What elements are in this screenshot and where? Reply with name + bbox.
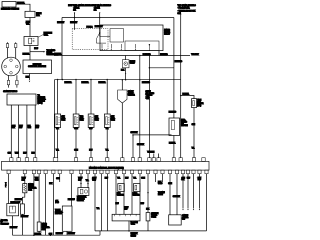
svg-text:BLK: BLK (12, 127, 15, 129)
svg-text:BLU/GRN: BLU/GRN (15, 199, 23, 201)
svg-text:CON-: CON- (197, 101, 201, 103)
svg-text:BLK/YEL: BLK/YEL (99, 82, 106, 84)
svg-text:SERVICE: SERVICE (151, 213, 158, 215)
svg-text:SENSOR: SENSOR (128, 95, 136, 97)
svg-text:WHT/: WHT/ (78, 178, 83, 180)
svg-text:NOT ON ALL MODELS: NOT ON ALL MODELS (92, 4, 111, 7)
svg-text:GRN: GRN (192, 124, 195, 126)
svg-text:CYL: CYL (55, 200, 58, 202)
svg-text:WHT/: WHT/ (22, 178, 27, 180)
svg-text:TDC/CRANK: TDC/CRANK (77, 196, 87, 199)
svg-text:(DIST): (DIST) (38, 103, 43, 105)
svg-text:RELAY: RELAY (164, 32, 171, 35)
svg-text:COND: COND (130, 63, 136, 65)
svg-text:IGNITION SWITCH: IGNITION SWITCH (1, 8, 20, 10)
svg-text:GRN: GRN (74, 150, 78, 152)
svg-text:YEL: YEL (86, 180, 89, 182)
svg-text:WHT: WHT (15, 153, 19, 155)
svg-text:NOT USED ON ALL MODELS: NOT USED ON ALL MODELS (68, 4, 93, 7)
svg-text:CHECK: CHECK (151, 215, 158, 217)
svg-text:GRN: GRN (35, 179, 39, 181)
svg-text:SOR: SOR (80, 120, 84, 122)
svg-text:L: L (5, 186, 6, 188)
svg-text:IGN: IGN (181, 123, 185, 125)
svg-text:BLK/YEL: BLK/YEL (183, 94, 190, 96)
svg-text:YEL: YEL (117, 178, 120, 180)
svg-text:• FUSE 15 15A: • FUSE 15 15A (178, 7, 191, 10)
svg-text:SUPPRES-: SUPPRES- (28, 188, 37, 190)
svg-text:GRN: GRN (141, 178, 145, 180)
svg-text:NOISE: NOISE (28, 186, 33, 188)
svg-text:BLK/YEL: BLK/YEL (169, 142, 176, 144)
svg-text:BLK: BLK (182, 179, 185, 181)
svg-text:YEL: YEL (133, 178, 136, 180)
svg-text:RADIO: RADIO (28, 183, 34, 186)
svg-text:YEL/GRN: YEL/GRN (147, 152, 155, 154)
svg-text:BLK/YEL: BLK/YEL (54, 54, 61, 56)
svg-text:BLK/YEL: BLK/YEL (65, 82, 72, 84)
svg-text:BLK/: BLK/ (198, 177, 202, 179)
svg-text:BLU: BLU (89, 128, 93, 130)
svg-text:RADIO: RADIO (42, 223, 48, 226)
svg-text:TO SCAN: TO SCAN (131, 221, 139, 224)
svg-text:YEL: YEL (106, 150, 109, 152)
svg-text:POS: POS (55, 202, 58, 204)
svg-text:GAUGE: GAUGE (182, 214, 188, 217)
svg-text:SOR: SOR (111, 120, 115, 122)
svg-text:ORN: ORN (12, 125, 15, 127)
svg-text:BLU: BLU (36, 127, 39, 129)
svg-text:BLU: BLU (105, 178, 109, 180)
svg-text:BLU: BLU (116, 203, 120, 205)
svg-text:SENSOR: SENSOR (133, 195, 141, 197)
svg-text:GRN/BLK: GRN/BLK (131, 132, 139, 134)
svg-text:TO MAIN: TO MAIN (158, 191, 165, 194)
svg-text:SOR: SOR (28, 189, 32, 191)
svg-text:TOP OF ALL MODELS: TOP OF ALL MODELS (178, 4, 197, 7)
svg-text:TO IGN: TO IGN (55, 210, 61, 212)
svg-text:BLU: BLU (141, 203, 145, 205)
svg-text:RED: RED (198, 179, 202, 181)
svg-text:GRN/BLK: GRN/BLK (137, 144, 145, 146)
svg-text:SUPPRES-: SUPPRES- (42, 227, 51, 229)
svg-text:COIL: COIL (44, 35, 48, 37)
svg-text:TRONIC: TRONIC (181, 121, 188, 123)
svg-text:• FUSE 1: • FUSE 1 (94, 7, 100, 9)
svg-text:BLU: BLU (19, 127, 22, 129)
svg-text:ELEC-: ELEC- (181, 120, 186, 122)
svg-text:BARO: BARO (133, 192, 138, 195)
svg-text:WHT: WHT (92, 179, 96, 181)
svg-text:BLU: BLU (78, 179, 82, 181)
svg-text:E: E (5, 185, 6, 187)
svg-text:SHIELD: SHIELD (131, 235, 137, 237)
svg-text:BLU: BLU (187, 177, 190, 179)
svg-text:RED: RED (36, 125, 40, 127)
svg-text:GRN: GRN (74, 128, 78, 130)
svg-text:GRN/BLK: GRN/BLK (173, 196, 181, 198)
svg-text:ENGINE CONTROL MODULE (ECM): ENGINE CONTROL MODULE (ECM) (89, 168, 124, 170)
svg-text:USED: USED (158, 183, 163, 185)
svg-text:WHT/: WHT/ (124, 207, 129, 209)
svg-text:BLU: BLU (34, 48, 38, 50)
svg-text:BLU: BLU (125, 178, 129, 180)
svg-text:BLK/WHT: BLK/WHT (10, 227, 18, 229)
svg-text:SOLENOID: SOLENOID (1, 223, 10, 225)
svg-text:SENSOR: SENSOR (77, 200, 85, 202)
svg-text:IDLE BOOST: IDLE BOOST (11, 202, 21, 204)
svg-text:GRN: GRN (28, 127, 31, 129)
svg-text:YEL/BLK: YEL/BLK (191, 54, 199, 56)
svg-text:NECTOR: NECTOR (197, 103, 204, 105)
svg-text:YEL/: YEL/ (35, 178, 39, 180)
svg-text:CONTROL: CONTROL (55, 211, 63, 213)
svg-text:TOOL: TOOL (131, 224, 135, 226)
svg-text:• FUSE 1: • FUSE 1 (73, 7, 79, 9)
svg-text:BLK/YEL: BLK/YEL (17, 3, 25, 5)
svg-text:A/C IDLE-: A/C IDLE- (1, 219, 9, 222)
svg-text:SEE IF: SEE IF (146, 91, 151, 93)
svg-text:SOR: SOR (61, 120, 65, 122)
svg-text:YEL: YEL (56, 150, 59, 152)
svg-text:(BLU): (BLU) (197, 105, 201, 107)
svg-text:BLK/WHT: BLK/WHT (68, 233, 75, 235)
svg-text:BLK/WHT: BLK/WHT (70, 22, 77, 24)
svg-text:YEL: YEL (97, 208, 100, 210)
svg-text:BLK: BLK (121, 70, 125, 72)
svg-text:MAP: MAP (117, 192, 120, 195)
svg-text:BLK/YEL: BLK/YEL (82, 82, 89, 84)
svg-text:YEL: YEL (106, 128, 109, 130)
svg-text:BLU/RED: BLU/RED (169, 112, 177, 114)
svg-text:WHT: WHT (19, 125, 22, 127)
svg-text:• UNDER-HOOD BOX: • UNDER-HOOD BOX (178, 10, 197, 12)
svg-text:CRANK: CRANK (128, 90, 135, 93)
svg-text:FUSE 2: FUSE 2 (87, 26, 93, 28)
svg-text:SENSOR: SENSOR (117, 195, 125, 197)
svg-text:NOT: NOT (158, 181, 161, 183)
svg-text:BLK/WHT: BLK/WHT (21, 216, 29, 218)
svg-text:BLU: BLU (124, 209, 128, 211)
svg-text:BLK/WHT: BLK/WHT (57, 22, 64, 24)
svg-text:BLK/WHT: BLK/WHT (56, 233, 63, 235)
svg-text:BLU: BLU (89, 150, 93, 152)
svg-text:BLK/WHT: BLK/WHT (95, 26, 104, 28)
svg-text:BLK: BLK (49, 183, 53, 185)
svg-text:POSITION: POSITION (77, 198, 85, 200)
svg-text:• FUSE 2: • FUSE 2 (146, 95, 153, 97)
svg-text:Y: Y (5, 183, 7, 185)
svg-text:MODULE: MODULE (55, 213, 62, 215)
svg-text:YEL: YEL (192, 148, 195, 150)
svg-text:CONTROL MODULE: CONTROL MODULE (28, 66, 47, 68)
svg-text:TACH: TACH (197, 99, 201, 102)
svg-text:UP: UP (1, 222, 3, 224)
svg-text:CONN: CONN (151, 216, 157, 218)
svg-text:YEL: YEL (56, 128, 59, 130)
svg-text:YEL: YEL (26, 24, 30, 26)
svg-text:ORN: ORN (56, 178, 59, 180)
svg-text:BLU: BLU (28, 125, 31, 127)
svg-text:ORN: ORN (182, 177, 185, 179)
svg-text:GRN/: GRN/ (92, 178, 97, 180)
svg-text:BLK/YEL: BLK/YEL (23, 54, 30, 56)
svg-text:BLY: BLY (182, 219, 186, 221)
svg-text:BRN/BLK: BRN/BLK (131, 233, 139, 235)
svg-text:PNK/BLU: PNK/BLU (68, 199, 76, 201)
svg-text:SOR: SOR (95, 120, 99, 122)
svg-text:GRN: GRN (168, 183, 172, 185)
svg-text:MODULE: MODULE (181, 125, 188, 127)
svg-text:BLU/RED: BLU/RED (175, 61, 183, 63)
svg-text:SPARK PLUGS: SPARK PLUGS (3, 90, 18, 93)
